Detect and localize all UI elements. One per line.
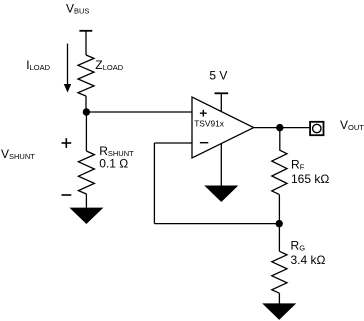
svg-text:BUS: BUS bbox=[74, 6, 89, 15]
svg-text:R: R bbox=[291, 239, 300, 253]
svg-text:LOAD: LOAD bbox=[30, 63, 51, 72]
svg-text:OUT: OUT bbox=[348, 123, 364, 132]
svg-text:G: G bbox=[299, 244, 305, 253]
svg-text:LOAD: LOAD bbox=[103, 63, 124, 72]
svg-text:3.4 kΩ: 3.4 kΩ bbox=[291, 253, 326, 267]
svg-text:165 kΩ: 165 kΩ bbox=[291, 172, 329, 186]
svg-text:V: V bbox=[66, 1, 74, 15]
svg-text:SHUNT: SHUNT bbox=[9, 152, 35, 161]
svg-text:F: F bbox=[300, 162, 305, 171]
svg-text:0.1 Ω: 0.1 Ω bbox=[99, 157, 128, 171]
svg-text:R: R bbox=[291, 157, 300, 171]
svg-text:V: V bbox=[1, 147, 9, 161]
svg-text:5 V: 5 V bbox=[209, 68, 227, 82]
svg-text:Z: Z bbox=[95, 58, 102, 72]
svg-text:TSV91x: TSV91x bbox=[194, 119, 225, 129]
svg-text:V: V bbox=[340, 118, 348, 132]
